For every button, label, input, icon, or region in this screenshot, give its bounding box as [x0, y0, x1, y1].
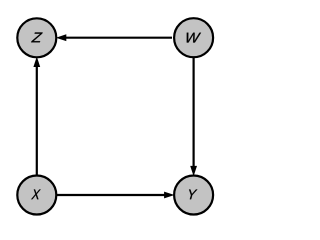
arrowhead into Y (from W) — [190, 166, 197, 176]
node Z label — [31, 33, 42, 43]
node X label — [31, 190, 40, 200]
arrowhead into Z (from X) — [33, 57, 40, 68]
arrowhead into Y (from X) — [164, 192, 174, 199]
node Y circle — [174, 176, 213, 215]
node Z circle — [17, 18, 56, 57]
wire W to Z — [65, 37, 173, 39]
node X circle — [17, 176, 56, 215]
node W circle — [174, 18, 213, 57]
node Y label — [189, 190, 197, 200]
wire X to Z — [36, 66, 38, 176]
arrowhead into Z (from W) — [56, 34, 66, 41]
node W label — [187, 33, 201, 43]
wire X to Y — [57, 194, 165, 196]
wire W to Y — [193, 57, 195, 167]
